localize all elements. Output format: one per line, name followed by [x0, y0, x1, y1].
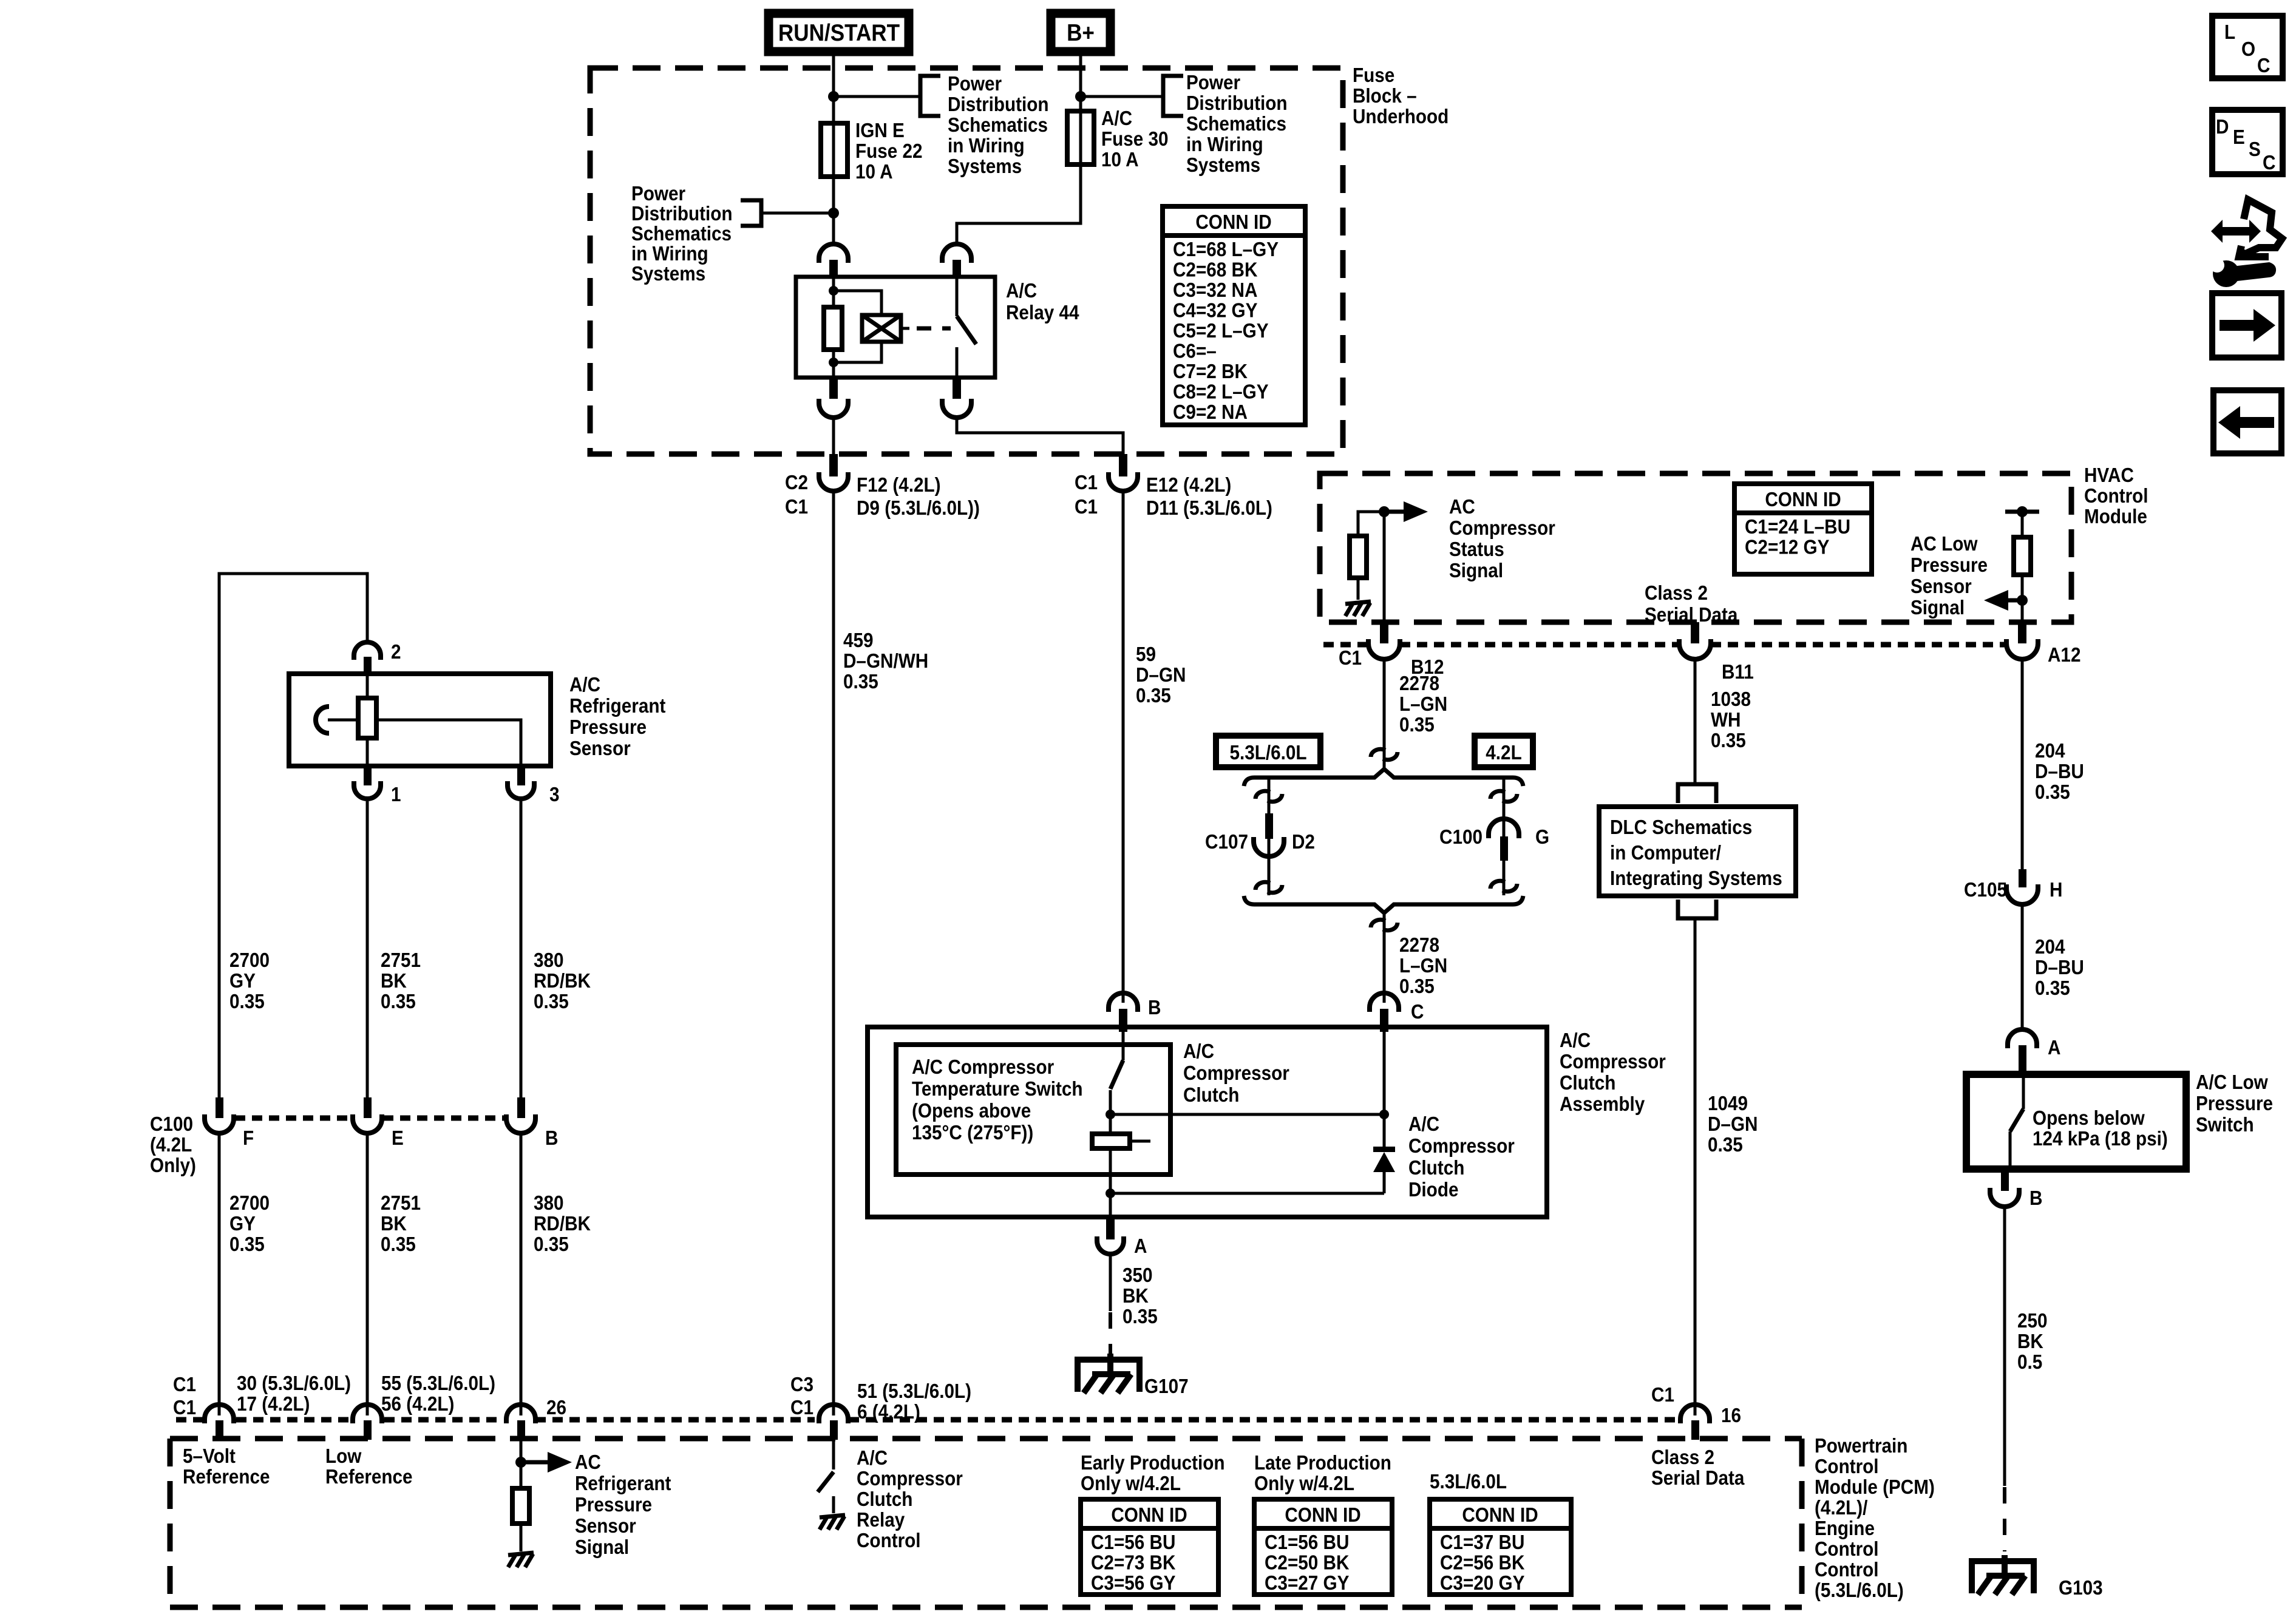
svg-text:0.35: 0.35	[1399, 714, 1435, 736]
svg-text:in Wiring: in Wiring	[948, 135, 1025, 157]
label 2751 BK 0.35 upper	[381, 949, 421, 1013]
label Powertrain Control Module	[1815, 1435, 1935, 1602]
svg-text:BK: BK	[381, 1213, 407, 1235]
label 2278 L-GN 0.35 (upper)	[1399, 673, 1447, 736]
label A/C Compressor Clutch Assembly	[1560, 1029, 1666, 1116]
svg-text:C5=2 L–GY: C5=2 L–GY	[1173, 320, 1269, 342]
connector A clutch	[1097, 1217, 1147, 1257]
wire 250 BK dashed to ground	[2003, 1487, 2006, 1551]
label A/C Compressor Clutch Diode	[1408, 1113, 1515, 1201]
svg-text:0.35: 0.35	[229, 1233, 265, 1256]
label fuse block underhood	[1353, 64, 1449, 128]
svg-text:Control: Control	[1815, 1456, 1879, 1478]
label 204 D-BU 0.35 upper	[2035, 740, 2084, 804]
svg-text:B: B	[2029, 1187, 2042, 1210]
label 380 RD/BK 0.35 lower	[534, 1192, 591, 1256]
connector C105 H	[1964, 869, 2062, 904]
conn table early production	[1081, 1499, 1218, 1595]
svg-text:L–GN: L–GN	[1399, 955, 1447, 977]
svg-text:S: S	[2249, 138, 2261, 161]
svg-text:L: L	[2224, 21, 2235, 44]
label A/C Compressor Clutch	[1183, 1040, 1289, 1107]
connector PCM C1 5-volt	[205, 1405, 234, 1440]
label A/C Fuse 30 10 A	[1101, 107, 1169, 171]
svg-text:51 (5.3L/6.0L): 51 (5.3L/6.0L)	[857, 1380, 971, 1403]
svg-text:A/C: A/C	[1560, 1029, 1591, 1052]
svg-text:2751: 2751	[381, 949, 421, 972]
svg-text:3: 3	[549, 784, 560, 806]
svg-text:135°C (275°F)): 135°C (275°F))	[912, 1122, 1033, 1144]
svg-text:C2: C2	[785, 472, 808, 494]
wire 2700 GY lower	[218, 1134, 221, 1415]
svg-text:C2=56 BK: C2=56 BK	[1440, 1551, 1525, 1574]
label temperature switch	[912, 1056, 1083, 1144]
svg-text:C1=24 L–BU: C1=24 L–BU	[1745, 516, 1850, 538]
svg-text:C107: C107	[1205, 831, 1248, 853]
svg-text:Serial Data: Serial Data	[1651, 1467, 1745, 1490]
node junction RUN/START branch	[828, 91, 839, 102]
svg-text:C2=73 BK: C2=73 BK	[1091, 1551, 1176, 1574]
svg-text:0.35: 0.35	[381, 1233, 416, 1256]
svg-text:A/C: A/C	[857, 1447, 888, 1470]
PCM dashed box	[170, 1439, 1802, 1607]
svg-text:Low: Low	[325, 1445, 362, 1468]
label 55/56 pins	[381, 1372, 495, 1415]
svg-text:Schematics: Schematics	[948, 114, 1048, 137]
svg-text:Sensor: Sensor	[569, 737, 631, 760]
svg-text:Clutch: Clutch	[857, 1488, 912, 1511]
svg-text:56 (4.2L): 56 (4.2L)	[381, 1393, 454, 1415]
svg-text:Refrigerant: Refrigerant	[569, 695, 666, 717]
wire 350 BK	[1109, 1255, 1112, 1311]
svg-text:A/C: A/C	[1408, 1113, 1439, 1136]
svg-text:B: B	[545, 1127, 558, 1150]
connector C2/C1 F12	[785, 454, 980, 519]
svg-text:350: 350	[1123, 1264, 1153, 1287]
switch low pressure	[2010, 1076, 2023, 1169]
label C107 / D2	[1205, 831, 1315, 853]
wire C105 to A	[2021, 906, 2024, 1028]
svg-text:in Wiring: in Wiring	[631, 243, 708, 265]
wire 250 BK	[2003, 1208, 2006, 1486]
label 350 BK 0.35	[1123, 1264, 1158, 1328]
svg-text:L–GN: L–GN	[1399, 693, 1447, 716]
svg-text:F12 (4.2L): F12 (4.2L)	[857, 474, 941, 497]
wire relay coil out to C2	[832, 418, 835, 456]
label C100 (4.2L Only)	[150, 1113, 196, 1177]
ground G107	[1078, 1354, 1189, 1397]
svg-text:Fuse 30: Fuse 30	[1101, 128, 1169, 151]
wire 59 D-GN	[1122, 492, 1125, 1003]
icon adjust/repair (arrows + wrench)	[2210, 200, 2282, 287]
svg-text:Module: Module	[2084, 506, 2147, 528]
off-page ref bracket (B+)	[1163, 76, 1183, 116]
wire break above split	[1371, 749, 1398, 759]
connector face line PCM	[176, 1417, 1678, 1423]
svg-text:26: 26	[546, 1397, 566, 1419]
svg-text:CONN ID: CONN ID	[1111, 1504, 1187, 1527]
wire C to diode	[1383, 1032, 1386, 1149]
svg-text:Switch: Switch	[2196, 1114, 2254, 1136]
svg-text:Compressor: Compressor	[1560, 1051, 1666, 1073]
svg-text:D11 (5.3L/6.0L): D11 (5.3L/6.0L)	[1146, 497, 1272, 520]
svg-text:2278: 2278	[1399, 673, 1439, 695]
svg-text:A: A	[1134, 1235, 1147, 1258]
svg-text:C1: C1	[785, 496, 808, 518]
svg-text:2751: 2751	[381, 1192, 421, 1215]
svg-text:A/C Low: A/C Low	[2196, 1071, 2268, 1094]
connector C100 F	[205, 1097, 254, 1149]
svg-text:Systems: Systems	[1186, 154, 1260, 177]
wire to connector A	[1109, 1193, 1112, 1217]
label opens below 124 kPa	[2033, 1107, 2168, 1150]
svg-text:IGN E: IGN E	[855, 120, 905, 142]
svg-text:Pressure: Pressure	[1911, 554, 1988, 577]
label AC Compressor Status Signal	[1449, 496, 1555, 582]
svg-text:D: D	[2216, 116, 2229, 138]
svg-text:GY: GY	[229, 970, 256, 992]
svg-text:380: 380	[534, 1192, 564, 1215]
switch temperature	[1110, 1027, 1123, 1134]
node junction switch to clutch	[1106, 1110, 1115, 1119]
svg-text:2278: 2278	[1399, 934, 1439, 957]
label 5-Volt Reference	[183, 1445, 270, 1488]
wire relay switch out to C1	[957, 418, 1123, 456]
label C3 C1	[790, 1374, 813, 1419]
label 30/17 pins	[237, 1372, 351, 1415]
svg-text:C2=50 BK: C2=50 BK	[1265, 1551, 1350, 1574]
svg-text:D–BU: D–BU	[2035, 761, 2084, 783]
svg-text:Signal: Signal	[1911, 597, 1965, 619]
label AC Refrigerant Pressure Sensor Signal	[575, 1451, 671, 1559]
svg-text:Clutch: Clutch	[1183, 1084, 1239, 1107]
wire 459 D-GN/WH	[832, 492, 835, 1415]
icon forward arrow box	[2212, 293, 2281, 358]
svg-text:Control: Control	[2084, 485, 2148, 507]
svg-text:D–GN: D–GN	[1136, 664, 1186, 686]
svg-text:Power: Power	[1186, 72, 1240, 94]
svg-text:C1=68 L–GY: C1=68 L–GY	[1173, 239, 1279, 261]
svg-text:DLC Schematics: DLC Schematics	[1610, 816, 1752, 839]
power feed RUN/START	[769, 13, 909, 52]
svg-text:B11: B11	[1722, 661, 1754, 683]
node junction sensor signal	[515, 1457, 526, 1468]
svg-text:4.2L: 4.2L	[1486, 742, 1521, 764]
relay A/C Relay 44	[796, 244, 995, 418]
connector face line HVAC	[1323, 642, 2005, 648]
svg-text:Diode: Diode	[1408, 1179, 1458, 1201]
node junction status signal	[1379, 506, 1390, 517]
svg-text:G103: G103	[2059, 1577, 2103, 1599]
svg-text:Distribution: Distribution	[631, 203, 733, 225]
ground relay control internal	[820, 1515, 845, 1530]
svg-text:2700: 2700	[229, 1192, 270, 1215]
wire break below split	[1371, 920, 1398, 930]
wire 350 BK dashed to ground	[1109, 1312, 1112, 1360]
svg-text:C2=68 BK: C2=68 BK	[1173, 259, 1258, 281]
node junction element out	[1106, 1188, 1115, 1198]
svg-text:0.35: 0.35	[1708, 1134, 1743, 1156]
svg-text:E: E	[2233, 126, 2245, 149]
label A/C Low Pressure Switch	[2196, 1071, 2273, 1136]
conn table 5.3L/6.0L	[1430, 1499, 1571, 1595]
svg-text:A/C: A/C	[1006, 280, 1037, 302]
label C1 C1 (left)	[173, 1374, 196, 1419]
svg-text:Clutch: Clutch	[1408, 1157, 1464, 1179]
svg-text:Systems: Systems	[948, 155, 1022, 178]
svg-text:HVAC: HVAC	[2084, 464, 2134, 487]
svg-text:0.5: 0.5	[2017, 1351, 2042, 1374]
svg-text:C1: C1	[1075, 472, 1098, 494]
wire B11 to DLC	[1694, 660, 1697, 784]
label 459 D-GN/WH 0.35	[843, 629, 928, 693]
svg-text:Module (PCM): Module (PCM)	[1815, 1476, 1935, 1499]
connector PCM C1 low ref	[353, 1405, 382, 1440]
connector C100 G branch	[1489, 778, 1519, 895]
svg-text:1: 1	[391, 784, 401, 806]
label AC Low Pressure Sensor Signal	[1911, 533, 1988, 619]
svg-text:Reference: Reference	[183, 1466, 270, 1488]
svg-text:CONN ID: CONN ID	[1195, 211, 1271, 234]
svg-text:Sensor: Sensor	[575, 1515, 636, 1537]
svg-text:C7=2 BK: C7=2 BK	[1173, 361, 1248, 383]
svg-text:GY: GY	[229, 1213, 256, 1235]
connector pin 2	[354, 641, 401, 676]
svg-text:Compressor: Compressor	[1408, 1135, 1515, 1158]
svg-text:0.35: 0.35	[1399, 975, 1435, 998]
svg-text:Fuse 22: Fuse 22	[855, 140, 923, 163]
svg-text:5.3L/6.0L: 5.3L/6.0L	[1229, 742, 1306, 764]
svg-text:10 A: 10 A	[1101, 149, 1139, 171]
svg-text:A/C: A/C	[569, 674, 600, 696]
svg-text:Fuse: Fuse	[1353, 64, 1394, 87]
svg-text:WH: WH	[1711, 709, 1741, 731]
wire to power distribution ref (top)	[834, 95, 920, 98]
svg-text:124 kPa (18 psi): 124 kPa (18 psi)	[2033, 1128, 2168, 1150]
label IGN E Fuse 22 10 A	[855, 120, 923, 183]
svg-text:Schematics: Schematics	[1186, 113, 1286, 135]
A/C low pressure switch box	[1966, 1074, 2186, 1169]
label 59 D-GN 0.35	[1136, 643, 1186, 707]
connector C clutch	[1370, 993, 1424, 1032]
svg-text:G107: G107	[1144, 1375, 1189, 1398]
connector pin 1	[354, 766, 401, 805]
label A/C Refrigerant Pressure Sensor	[569, 674, 666, 760]
svg-text:in Wiring: in Wiring	[1186, 134, 1263, 156]
svg-text:AC: AC	[1449, 496, 1475, 518]
resistor HVAC status pull	[1350, 512, 1384, 600]
split brace lower	[1244, 896, 1523, 913]
wire B+ to relay switch	[957, 52, 1081, 246]
wire 380 RD/BK upper	[520, 801, 523, 1105]
svg-text:Late Production: Late Production	[1254, 1452, 1391, 1474]
wire split to C	[1383, 913, 1386, 1003]
svg-text:459: 459	[843, 629, 874, 652]
label box 5.3L/6.0L	[1216, 736, 1320, 767]
connector B low pressure switch	[1990, 1169, 2042, 1209]
svg-text:Status: Status	[1449, 538, 1504, 561]
svg-text:D–BU: D–BU	[2035, 957, 2084, 979]
svg-text:17 (4.2L): 17 (4.2L)	[237, 1393, 310, 1415]
svg-text:55 (5.3L/6.0L): 55 (5.3L/6.0L)	[381, 1372, 495, 1395]
wire pressure sensor signal into PCM	[520, 1440, 523, 1488]
ref bracket DLC top	[1678, 784, 1716, 803]
label HVAC Control Module	[2084, 464, 2148, 528]
wire sensor to pin 3	[376, 720, 521, 766]
svg-text:Only w/4.2L: Only w/4.2L	[1254, 1473, 1354, 1495]
svg-text:Clutch: Clutch	[1560, 1072, 1615, 1094]
label 1049 D-GN 0.35	[1708, 1093, 1758, 1156]
svg-text:1038: 1038	[1711, 688, 1751, 711]
svg-text:CONN ID: CONN ID	[1462, 1504, 1538, 1527]
svg-text:(5.3L/6.0L): (5.3L/6.0L)	[1815, 1579, 1904, 1602]
label 2278 L-GN 0.35 (lower)	[1399, 934, 1447, 998]
svg-text:250: 250	[2017, 1310, 2048, 1332]
fuse A/C Fuse 30	[1067, 111, 1094, 164]
svg-text:B+: B+	[1067, 19, 1095, 46]
wire RUN/START to relay	[832, 52, 835, 246]
svg-text:A/C Compressor: A/C Compressor	[912, 1056, 1054, 1079]
wire 2751 BK lower	[366, 1134, 369, 1415]
svg-text:E12 (4.2L): E12 (4.2L)	[1146, 474, 1231, 497]
node junction low pressure sensor signal	[2017, 595, 2028, 606]
svg-text:30 (5.3L/6.0L): 30 (5.3L/6.0L)	[237, 1372, 351, 1395]
svg-text:Powertrain: Powertrain	[1815, 1435, 1907, 1457]
split brace upper	[1244, 769, 1523, 786]
connector C1/C1 E12	[1075, 454, 1272, 519]
svg-text:CONN ID: CONN ID	[1285, 1504, 1360, 1527]
svg-text:C1: C1	[173, 1374, 196, 1396]
svg-text:D9 (5.3L/6.0L)): D9 (5.3L/6.0L))	[857, 497, 980, 520]
label 204 D-BU 0.35 lower	[2035, 936, 2084, 1000]
connector PCM C1 16 class 2	[1680, 1405, 1741, 1440]
svg-text:C2=12 GY: C2=12 GY	[1745, 536, 1829, 558]
label 2751 BK 0.35 lower	[381, 1192, 421, 1256]
svg-text:(4.2L: (4.2L	[150, 1134, 192, 1156]
svg-text:2700: 2700	[229, 949, 270, 972]
svg-text:Systems: Systems	[631, 263, 705, 285]
connector pin 3	[508, 766, 560, 805]
label Class 2 Serial Data (HVAC)	[1645, 582, 1738, 626]
label Low Reference	[325, 1445, 413, 1488]
svg-text:A12: A12	[2048, 644, 2080, 666]
svg-text:(4.2L)/: (4.2L)/	[1815, 1497, 1868, 1519]
connector C100 E	[353, 1097, 404, 1149]
svg-text:Sensor: Sensor	[1911, 575, 1972, 598]
connector face line C100	[235, 1116, 505, 1121]
icon LOC box	[2212, 16, 2283, 78]
svg-text:AC Low: AC Low	[1911, 533, 1978, 555]
svg-text:Power: Power	[948, 73, 1002, 95]
svg-text:Relay 44: Relay 44	[1006, 302, 1079, 324]
svg-text:Power: Power	[631, 183, 685, 205]
svg-text:Signal: Signal	[1449, 560, 1503, 582]
svg-text:10 A: 10 A	[855, 161, 893, 183]
svg-text:204: 204	[2035, 936, 2065, 958]
label power distribution schematics (top)	[948, 73, 1049, 178]
svg-text:Reference: Reference	[325, 1466, 413, 1488]
label 2700 GY 0.35 upper	[229, 949, 270, 1013]
node junction B+ branch	[1075, 91, 1086, 102]
wire to power distribution ref (B+)	[1081, 95, 1163, 98]
svg-text:Distribution: Distribution	[1186, 92, 1288, 115]
svg-text:D–GN: D–GN	[1708, 1113, 1758, 1136]
svg-text:Class 2: Class 2	[1651, 1446, 1714, 1469]
svg-text:0.35: 0.35	[2035, 977, 2070, 1000]
svg-text:C100: C100	[150, 1113, 193, 1136]
conn table HVAC	[1734, 484, 1872, 574]
svg-text:CONN ID: CONN ID	[1765, 489, 1841, 511]
svg-text:BK: BK	[2017, 1331, 2043, 1353]
connector PCM 26	[506, 1397, 566, 1440]
svg-text:Integrating Systems: Integrating Systems	[1610, 867, 1782, 890]
A/C refrigerant pressure sensor box	[289, 674, 551, 766]
svg-text:16: 16	[1721, 1405, 1741, 1427]
svg-text:O: O	[2241, 38, 2255, 61]
label 250 BK 0.5	[2017, 1310, 2048, 1374]
conn table fuse block	[1163, 206, 1305, 425]
node junction C clutch	[1379, 1110, 1389, 1119]
A/C compressor temperature switch box	[896, 1045, 1170, 1175]
svg-text:C1: C1	[1651, 1384, 1674, 1406]
svg-text:Engine: Engine	[1815, 1517, 1875, 1540]
wire 2751 BK upper	[366, 801, 369, 1105]
svg-text:0.35: 0.35	[534, 1233, 569, 1256]
node junction IGN E below fuse	[828, 208, 839, 219]
wire sensor pin2 loop	[219, 574, 367, 1105]
svg-text:Distribution: Distribution	[948, 93, 1049, 116]
connector B12 (C1)	[1339, 622, 1444, 678]
svg-text:C3=56 GY: C3=56 GY	[1091, 1572, 1175, 1595]
svg-text:C8=2 L–GY: C8=2 L–GY	[1173, 381, 1269, 403]
svg-text:C1=37 BU: C1=37 BU	[1440, 1531, 1524, 1554]
svg-text:0.35: 0.35	[2035, 781, 2070, 804]
svg-text:C9=2 NA: C9=2 NA	[1173, 401, 1248, 424]
connector B11	[1679, 622, 1754, 683]
svg-text:C1: C1	[790, 1397, 813, 1419]
svg-text:Class 2: Class 2	[1645, 582, 1708, 605]
off-page ref bracket (top)	[920, 76, 940, 116]
label C100 / G	[1439, 826, 1549, 849]
connector A low pressure switch	[2008, 1029, 2060, 1076]
sensor element	[358, 676, 376, 766]
resistor HVAC low pressure sense	[2005, 506, 2039, 625]
sensor port symbol	[316, 707, 358, 733]
connector B clutch	[1109, 993, 1161, 1032]
svg-text:C1: C1	[1075, 496, 1098, 518]
wire 1049 D-GN	[1694, 918, 1697, 1415]
svg-text:Opens below: Opens below	[2033, 1107, 2145, 1130]
diode A/C compressor clutch	[1373, 1147, 1395, 1193]
power feed B+	[1051, 13, 1110, 52]
svg-text:C3=27 GY: C3=27 GY	[1265, 1572, 1349, 1595]
svg-text:Compressor: Compressor	[1183, 1062, 1289, 1085]
svg-text:Pressure: Pressure	[2196, 1093, 2273, 1115]
connector C107 D2 branch	[1254, 778, 1284, 895]
svg-text:C3: C3	[790, 1374, 813, 1396]
svg-text:C105: C105	[1964, 879, 2007, 901]
svg-text:C4=32 GY: C4=32 GY	[1173, 299, 1257, 322]
svg-text:C: C	[2257, 55, 2270, 77]
wire 380 RD/BK lower	[520, 1134, 523, 1415]
svg-text:Relay: Relay	[857, 1509, 905, 1531]
label power distribution schematics (B+)	[1186, 72, 1288, 177]
svg-text:Temperature Switch: Temperature Switch	[912, 1078, 1083, 1100]
svg-text:Refrigerant: Refrigerant	[575, 1473, 671, 1495]
arrow AC low pressure sensor signal	[1984, 590, 2022, 611]
svg-text:5–Volt: 5–Volt	[183, 1445, 236, 1468]
arrow AC refrigerant pressure sensor signal	[521, 1452, 572, 1473]
